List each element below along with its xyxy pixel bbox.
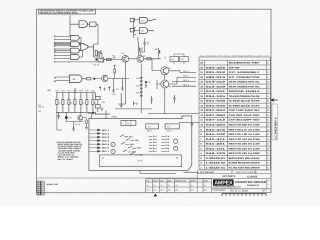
- svg-text:P.C. BD ASSY REG DRIVER: P.C. BD ASSY REG DRIVER: [229, 166, 260, 169]
- switch contact S3: [121, 142, 129, 144]
- parts list table: [199, 57, 270, 170]
- AMPEX logo: [213, 179, 234, 185]
- pin column 2: [162, 136, 165, 151]
- resistor R10: [56, 93, 58, 113]
- page frame: [37, 9, 272, 193]
- svg-text:P4 A: P4 A: [153, 144, 158, 147]
- AND gate A1: [79, 21, 87, 28]
- svg-text:042-123: 042-123: [206, 152, 227, 155]
- svg-text:A6 B6: A6 B6: [37, 193, 42, 196]
- svg-text:TOL: TOL: [146, 179, 149, 182]
- svg-text:D: D: [232, 189, 234, 192]
- bottom band line: [37, 177, 198, 179]
- svg-text:CODE 00425: CODE 00425: [213, 189, 226, 192]
- svg-text:BOARD BLANK: BOARD BLANK: [229, 157, 261, 160]
- resistor R18: [86, 118, 88, 126]
- svg-text:SW2: SW2: [135, 139, 139, 142]
- svg-text:P1 A: P1 A: [165, 135, 170, 138]
- input box Z3: [130, 28, 134, 32]
- svg-text:R16: R16: [91, 90, 94, 93]
- resistor R4 on wire: [107, 58, 112, 60]
- NAND gate A8: [140, 28, 148, 34]
- input wires: [56, 49, 71, 52]
- NAND gate A7: [140, 17, 148, 23]
- resistor R5: [138, 42, 140, 56]
- svg-text:REF A: REF A: [147, 130, 153, 133]
- svg-text:037-112: 037-112: [206, 119, 227, 122]
- svg-text:P6 A: P6 A: [153, 150, 158, 153]
- ground G3: [73, 127, 74, 128]
- svg-text:.01: .01: [168, 184, 170, 187]
- wire cluster: [94, 50, 105, 62]
- wire: [88, 23, 99, 25]
- resistor R2: [100, 54, 102, 59]
- svg-text:DRAWN CHK: DRAWN CHK: [175, 179, 186, 182]
- svg-text:041-102: 041-102: [206, 133, 227, 136]
- AND gate A3: [71, 42, 80, 47]
- transistor Q1: [122, 55, 129, 62]
- svg-text:P2 A: P2 A: [153, 138, 158, 141]
- signal arrow P1: [89, 129, 101, 131]
- svg-text:R11: R11: [61, 90, 64, 93]
- wire modules: [159, 54, 185, 64]
- test point TP4: [174, 146, 178, 150]
- svg-text:CR4: CR4: [136, 84, 140, 87]
- ground G4: [101, 108, 104, 112]
- svg-text:1-30422-02: 1-30422-02: [206, 162, 227, 165]
- svg-text:OUT 1: OUT 1: [183, 70, 190, 73]
- resistor R13: [74, 93, 76, 113]
- signal arrow P6: [89, 147, 101, 149]
- svg-text:.01: .01: [175, 184, 177, 187]
- svg-text:013-501: 013-501: [206, 90, 227, 93]
- wire: [129, 58, 137, 60]
- svg-text:041-472: 041-472: [206, 128, 227, 131]
- test point TP3: [174, 139, 178, 143]
- svg-text:CR6: CR6: [136, 92, 140, 95]
- test point TP2: [111, 149, 115, 153]
- svg-text:.01: .01: [191, 184, 193, 187]
- module Z5: [96, 105, 101, 108]
- svg-text:580-013: 580-013: [206, 76, 227, 79]
- diode chain CR2-CR7: [140, 77, 143, 99]
- signal arrow P2: [89, 132, 101, 134]
- margin arrow: [271, 99, 277, 101]
- resistor R16: [92, 93, 94, 113]
- wire network top feed: [75, 88, 110, 114]
- svg-text:P6 A: P6 A: [165, 150, 170, 153]
- svg-text:RES FXD 100 5% 1/4W: RES FXD 100 5% 1/4W: [229, 147, 261, 150]
- resistor R11: [62, 93, 64, 113]
- svg-text:SCHEMATIC: SCHEMATIC: [247, 184, 260, 187]
- svg-text:R10: R10: [55, 90, 58, 93]
- input network vertical: [134, 18, 140, 38]
- svg-text:LC30422: LC30422: [247, 175, 258, 178]
- svg-text:030-422: 030-422: [206, 66, 227, 69]
- svg-text:SCHEM REGISTER DRIVER: SCHEM REGISTER DRIVER: [229, 162, 260, 165]
- svg-text:R14: R14: [79, 90, 82, 93]
- capacitor C1: [102, 57, 104, 62]
- svg-text:.01: .01: [160, 184, 162, 187]
- wire: [70, 16, 79, 25]
- svg-text:1/64: 1/64: [160, 188, 163, 191]
- capacitor C5: [57, 112, 59, 119]
- switch contact S1: [120, 135, 128, 137]
- svg-text:4-30422-01: 4-30422-01: [206, 157, 227, 160]
- svg-text:P4 A: P4 A: [165, 144, 170, 147]
- wire Q3-Q4: [157, 75, 165, 112]
- AND gate A4: [71, 48, 79, 53]
- wire long input: [56, 61, 104, 63]
- svg-text:1/64: 1/64: [153, 188, 156, 191]
- supply arrow 2: [99, 87, 101, 91]
- module K1: [170, 57, 179, 62]
- svg-text:SW3: SW3: [130, 143, 134, 146]
- svg-text:RES FXD 22K 5% 1/4W: RES FXD 22K 5% 1/4W: [229, 124, 261, 127]
- wire: [104, 59, 122, 61]
- output wires to right: [169, 71, 196, 86]
- svg-text:041-471: 041-471: [206, 138, 227, 141]
- svg-text:1/64: 1/64: [175, 188, 178, 191]
- note box: [39, 9, 96, 14]
- table footer rows: [197, 170, 270, 193]
- svg-text:PWA 1: PWA 1: [112, 116, 119, 119]
- svg-text:REGISTER DRIVER: REGISTER DRIVER: [235, 180, 266, 184]
- svg-text:SIG 6: SIG 6: [102, 147, 110, 150]
- revision stamp: [37, 181, 44, 195]
- svg-text:SIG 7: SIG 7: [102, 150, 110, 153]
- svg-text:041-101: 041-101: [206, 147, 227, 150]
- resistor R1: [95, 51, 97, 56]
- capacitor C4: [121, 86, 123, 91]
- switch contact S2: [126, 138, 134, 140]
- svg-text:P3 A: P3 A: [165, 141, 170, 144]
- capacitor C3: [112, 88, 114, 93]
- svg-text:SIG 5: SIG 5: [102, 143, 110, 146]
- svg-text:QTY PER UNIT: QTY PER UNIT: [200, 171, 215, 174]
- fold marker: [154, 194, 158, 197]
- wire Q1 emitter bus: [115, 104, 152, 109]
- svg-text:034-125: 034-125: [206, 95, 227, 98]
- svg-text:1/64: 1/64: [146, 188, 149, 191]
- svg-text:OUT 2: OUT 2: [183, 75, 190, 78]
- wire input feed: [69, 24, 72, 36]
- edge connector J2: [100, 155, 182, 167]
- svg-text:LC 30422 REV A: LC 30422 REV A: [273, 117, 277, 139]
- svg-text:P3 A: P3 A: [153, 141, 158, 144]
- svg-text:SW1: SW1: [129, 135, 133, 138]
- svg-text:APPD: APPD: [191, 179, 196, 182]
- svg-text:P5 A: P5 A: [153, 147, 158, 150]
- wire Q5 out: [97, 78, 129, 88]
- svg-text:SIG 2: SIG 2: [102, 132, 110, 135]
- diode CR5: [92, 78, 97, 80]
- rev box: [266, 178, 268, 188]
- svg-text:DIODE 1N914: DIODE 1N914: [229, 90, 262, 93]
- resistor R6: [159, 48, 160, 56]
- svg-text:SW4: SW4: [137, 147, 141, 150]
- svg-text:RES FXD 220 5% 1/4W: RES FXD 220 5% 1/4W: [229, 143, 261, 146]
- module Z4: [96, 96, 101, 99]
- svg-text:RES FXD 470 5% 1/4W: RES FXD 470 5% 1/4W: [229, 138, 261, 141]
- svg-text:037-090: 037-090: [206, 114, 227, 117]
- wire: [94, 24, 99, 44]
- svg-text:1/64: 1/64: [168, 188, 171, 191]
- svg-text:ASSY REF: ASSY REF: [229, 66, 241, 69]
- svg-text:031-559: 031-559: [206, 104, 227, 107]
- wire into box: [92, 110, 107, 119]
- test point TP1: [111, 142, 115, 146]
- svg-text:FRAC: FRAC: [153, 179, 158, 182]
- svg-text:SW5: SW5: [132, 151, 136, 154]
- module K2: [180, 57, 189, 62]
- svg-text:REF B: REF B: [167, 130, 173, 133]
- resistor R19: [147, 58, 151, 60]
- transistor Q3: [161, 67, 169, 75]
- pin column 1: [149, 136, 152, 151]
- transistor Q2: [137, 55, 144, 62]
- svg-text:IC 9962 QUAD GATE: IC 9962 QUAD GATE: [229, 104, 261, 107]
- svg-text:R20: R20: [113, 93, 116, 96]
- svg-text:CORPORATION REDWOOD CITY: CORPORATION REDWOOD CITY: [213, 186, 242, 189]
- svg-text:P.C. ASSEMBLY: P.C. ASSEMBLY: [229, 71, 261, 74]
- svg-text:013-559: 013-559: [206, 85, 227, 88]
- delay module Z1: [90, 22, 97, 27]
- signal arrow P3: [89, 136, 101, 138]
- wire C6: [140, 39, 144, 56]
- OR gate A6: [80, 43, 89, 51]
- capacitor C7 polarized: [65, 112, 67, 116]
- signal arrow P7: [89, 150, 101, 152]
- svg-text:031-012: 031-012: [206, 71, 227, 74]
- svg-text:CAP CER .01UF 100V: CAP CER .01UF 100V: [229, 114, 261, 117]
- svg-text:NEXT ASSY USED ON: NEXT ASSY USED ON: [236, 171, 257, 174]
- title block grid: [146, 179, 212, 193]
- input wires: [54, 77, 69, 82]
- svg-text:REF PL 30422: REF PL 30422: [58, 158, 73, 161]
- resistor R12: [68, 93, 70, 113]
- terminal block TB1: [121, 120, 136, 125]
- svg-text:NO AMPEX P/N DESCRIPTION: NO AMPEX P/N DESCRIPTION MFR CODE QTY: [200, 55, 271, 58]
- transistor Q6: [78, 115, 83, 120]
- switch contact S5: [123, 150, 131, 152]
- terminal block TB2: [146, 124, 159, 129]
- svg-text:SIG 3: SIG 3: [102, 136, 110, 139]
- svg-text:SCHEMATIC REF: SCHEMATIC REF: [229, 62, 261, 65]
- svg-text:R3 1K: R3 1K: [94, 64, 100, 67]
- svg-text:.01: .01: [204, 184, 206, 187]
- wire gate outputs: [148, 19, 156, 30]
- signal arrow P5: [89, 143, 101, 145]
- svg-text:SIG 1: SIG 1: [102, 129, 110, 132]
- svg-text:R12: R12: [67, 90, 70, 93]
- resistor R9: [114, 66, 116, 78]
- svg-text:RES FXD 1.0K 5% 1/4W: RES FXD 1.0K 5% 1/4W: [229, 133, 261, 136]
- supply arrow: [109, 87, 111, 91]
- svg-text:MODEL 1100: MODEL 1100: [47, 183, 58, 186]
- svg-text:P2 A: P2 A: [165, 138, 170, 141]
- svg-text:CAP MICA 220PF 500V: CAP MICA 220PF 500V: [229, 119, 261, 122]
- wire Q2 base feed: [137, 38, 139, 42]
- wire lower bus: [66, 119, 83, 128]
- diode CR1: [95, 58, 98, 60]
- resistor network rails: [56, 93, 95, 113]
- svg-text:041-223: 041-223: [206, 124, 227, 127]
- AND gate A2: [71, 35, 80, 40]
- input box Z2: [130, 18, 134, 22]
- wire L drop: [57, 112, 62, 130]
- resistor R15: [86, 93, 88, 113]
- wire gate outputs to OR: [79, 38, 82, 57]
- wire Q1 collector down: [124, 62, 126, 104]
- capacitor C6: [143, 41, 146, 47]
- svg-text:LC 30422: LC 30422: [238, 189, 249, 192]
- transistor Q5: [102, 75, 108, 81]
- svg-text:013-552: 013-552: [206, 81, 227, 84]
- svg-text:TRANSFORMER PULSE: TRANSFORMER PULSE: [229, 95, 261, 98]
- ground G1: [179, 123, 199, 127]
- svg-text:1/64: 1/64: [204, 188, 207, 191]
- svg-text:1-30422-01: 1-30422-01: [206, 166, 227, 169]
- svg-text:037-004: 037-004: [206, 109, 227, 112]
- svg-text:OUT 3: OUT 3: [183, 79, 190, 82]
- switch contact S6: [130, 153, 138, 155]
- svg-text:LIST PARTS: LIST PARTS: [222, 175, 236, 178]
- svg-text:P5 A: P5 A: [165, 147, 170, 150]
- scale ruler: [222, 194, 266, 196]
- svg-text:CR2: CR2: [136, 77, 140, 80]
- svg-text:RES FXD 4.7K 5% 1/4W: RES FXD 4.7K 5% 1/4W: [229, 128, 261, 131]
- svg-text:E3: E3: [148, 81, 150, 84]
- svg-text:RES FXD 12K 1% 1/8W: RES FXD 12K 1% 1/8W: [229, 152, 261, 155]
- svg-text:C8 .01: C8 .01: [75, 123, 80, 126]
- svg-text:XSTR 2N3906 PNP SIL: XSTR 2N3906 PNP SIL: [229, 85, 261, 88]
- ground G6: [85, 126, 88, 129]
- AND gate A5: [71, 55, 80, 60]
- svg-text:.01: .01: [153, 184, 155, 187]
- input wires: [56, 36, 71, 39]
- svg-text:031-558: 031-558: [206, 100, 227, 103]
- wire: [144, 59, 161, 71]
- ground G2: [120, 93, 123, 107]
- svg-text:R15: R15: [85, 90, 88, 93]
- AND gate A9: [70, 75, 83, 83]
- size and number row: [212, 189, 271, 193]
- transistor Q4: [161, 80, 169, 88]
- resistor R14: [80, 93, 82, 113]
- resistor R7: [150, 96, 152, 104]
- svg-text:041-221: 041-221: [206, 143, 227, 146]
- resistor R8: [82, 78, 87, 80]
- svg-text:XSTR 2N3904 NPN SIL: XSTR 2N3904 NPN SIL: [229, 81, 261, 84]
- signal arrow P4: [89, 140, 101, 142]
- svg-text:CAP TANT 6.8UF 35V: CAP TANT 6.8UF 35V: [229, 109, 261, 112]
- junction dot: [145, 81, 147, 83]
- svg-text:REDWOOD CITY CALIFORNIA GENERA: REDWOOD CITY CALIFORNIA GENERAL OFFICE: [40, 12, 79, 15]
- svg-text:P.C. CONNECTOR: P.C. CONNECTOR: [229, 76, 261, 79]
- ground G5: [103, 88, 105, 92]
- wire output bus: [148, 112, 199, 114]
- off-page connector B: [134, 101, 136, 106]
- svg-text:.01: .01: [146, 184, 148, 187]
- assembly outline J1: [89, 116, 192, 170]
- wire: [140, 170, 199, 173]
- svg-text:1/64: 1/64: [191, 188, 194, 191]
- input wires: [56, 55, 71, 58]
- switch contact S4: [128, 146, 136, 148]
- terminal block TB3: [165, 124, 179, 129]
- svg-text:P1 A: P1 A: [153, 135, 158, 138]
- wire OR output: [89, 44, 94, 57]
- svg-text:OUT 4: OUT 4: [183, 83, 190, 86]
- capacitor C2: [173, 95, 175, 103]
- arrow into box: [88, 112, 95, 114]
- input wires: [56, 43, 71, 46]
- svg-text:IC 9946 QUAD GATE: IC 9946 QUAD GATE: [229, 100, 261, 103]
- svg-text:.01: .01: [147, 43, 150, 46]
